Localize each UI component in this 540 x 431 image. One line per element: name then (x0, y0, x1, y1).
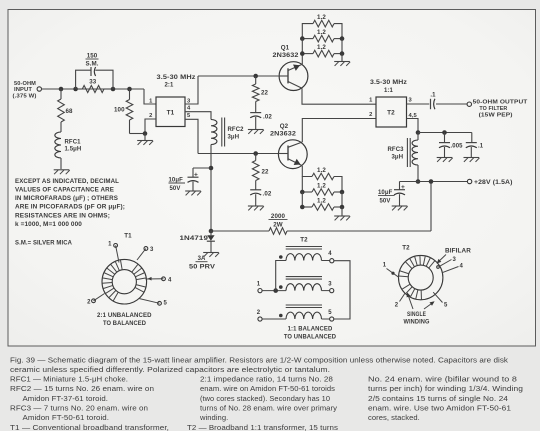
resistor 1.2 (Q2 a) (302, 167, 342, 192)
svg-text:50 PRV: 50 PRV (189, 265, 215, 271)
svg-text:3μH: 3μH (392, 155, 404, 161)
label 2:1 (165, 83, 175, 89)
wire RFC3 to +28V rail (417, 165, 419, 182)
svg-text:turns per inch) for winding 1/: turns per inch) for winding 1/3/4. Windi… (368, 384, 523, 393)
notes text (15, 178, 125, 228)
resistor 2000 2W (211, 213, 431, 234)
svg-text:T2: T2 (387, 110, 395, 117)
transformer T2 box (376, 97, 407, 127)
wire T1 pin5 to lower rail (185, 119, 198, 153)
transistor Q1 (279, 62, 308, 91)
capacitor .1 bypass (466, 133, 484, 158)
ground diode (203, 253, 219, 257)
svg-text:4: 4 (328, 251, 332, 257)
svg-text:1: 1 (383, 263, 387, 269)
T2 winding bottom (2-5) (279, 305, 322, 319)
svg-text:2: 2 (395, 303, 399, 309)
wire +28V rail (400, 181, 468, 183)
node Q2 e-rail left c (300, 205, 305, 210)
svg-text:.005: .005 (451, 144, 464, 150)
resistor 1.2 (Q2 c) (302, 192, 342, 210)
svg-text:33: 33 (89, 78, 97, 85)
T2 pict SINGLE WINDING (404, 292, 435, 325)
T2 terminal 4 (322, 251, 334, 263)
svg-text:+: + (401, 184, 405, 191)
svg-text:T1 — Conventional broadband tr: T1 — Conventional broadband transformer, (10, 423, 169, 431)
resistor 33 (76, 78, 113, 92)
svg-text:.1: .1 (430, 93, 436, 99)
choke RFC3 (388, 133, 419, 168)
node Q2 e-rail right b (340, 190, 345, 195)
T2 pict lead 3 (437, 257, 457, 268)
label 50-OHM OUTPUT (473, 100, 528, 119)
svg-text:TO FILTER: TO FILTER (479, 106, 508, 112)
wire T2 top-left link (276, 261, 286, 291)
svg-text:2:1 impedance ratio, 14 turns: 2:1 impedance ratio, 14 turns No. 28 (200, 374, 333, 383)
svg-text:100: 100 (114, 107, 125, 114)
node cap-right (111, 87, 116, 92)
capacitor 10uF 50V (right) (378, 182, 405, 206)
svg-text:1.2: 1.2 (317, 14, 326, 21)
node e-rail left c (300, 51, 305, 56)
transformer T1 toroid pictorial (102, 259, 147, 304)
wire T1 pin2 to ground (145, 119, 156, 134)
node Q2 e-rail right c (340, 205, 345, 210)
notes S.M. (15, 239, 72, 246)
svg-text:winding.: winding. (199, 413, 228, 422)
svg-text:T2: T2 (300, 237, 308, 244)
capacitor 150 S.M. bridge wire (76, 70, 113, 89)
T2 pict BIFILAR (437, 249, 472, 264)
node e-rail right b (340, 36, 345, 41)
svg-text:5: 5 (164, 301, 168, 307)
wire top base rail (198, 75, 278, 77)
+28V terminal (467, 179, 471, 183)
capacitor 150 S.M. (85, 53, 98, 77)
T2 pin 2 label (369, 112, 372, 118)
capacitor .005 (439, 133, 463, 158)
svg-text:RFC3: RFC3 (388, 147, 405, 153)
svg-text:.02: .02 (263, 191, 272, 198)
choke RFC2 (211, 118, 244, 147)
wire cap to output terminal (436, 103, 467, 105)
pin 3 label (187, 99, 191, 105)
wire lower base rail (198, 153, 278, 155)
schematic border frame (8, 10, 536, 347)
figure caption text (10, 355, 523, 431)
node 2000 branch (429, 179, 434, 184)
ground .02 (Q1) (248, 130, 264, 134)
choke RFC1 (55, 132, 82, 169)
svg-text:2: 2 (257, 310, 261, 316)
svg-text:T2: T2 (402, 244, 410, 251)
node diode junction (209, 229, 214, 234)
capacitor .1 output (430, 93, 436, 110)
svg-text:RFC2: RFC2 (228, 127, 245, 133)
wire T2 pin3 out (407, 103, 430, 105)
pin 1 label (149, 99, 153, 105)
T1 caption (97, 312, 152, 327)
svg-text:+: + (194, 172, 198, 179)
svg-text:1: 1 (108, 241, 112, 247)
T2 pictorial label (402, 244, 410, 251)
capacitor .02 (Q1) (250, 102, 272, 130)
svg-text:3.5-30 MHz: 3.5-30 MHz (157, 74, 196, 81)
label 1:1 (384, 88, 394, 94)
wire T1 pin4 to RFC2 (185, 112, 211, 120)
pin 2 label (149, 113, 152, 119)
svg-text:SINGLE: SINGLE (407, 312, 426, 318)
svg-text:Q2: Q2 (280, 123, 289, 130)
svg-text:+28V (1.5A): +28V (1.5A) (474, 180, 513, 186)
svg-text:Amidon FT-37-61 toroid.: Amidon FT-37-61 toroid. (23, 394, 109, 403)
capacitor .02 (Q2) (250, 181, 272, 206)
svg-text:.02: .02 (263, 113, 272, 120)
svg-text:3: 3 (328, 282, 332, 288)
T1 lead 5 (139, 299, 168, 307)
transformer T2 toroid pictorial (399, 255, 443, 299)
svg-text:2: 2 (149, 113, 152, 119)
T2 pict lead 5 (433, 292, 448, 308)
resistor 22 (Q2 base) (252, 154, 269, 181)
input label 50-OHM INPUT (13, 81, 37, 99)
svg-text:VALUES OF CAPACITANCE ARE: VALUES OF CAPACITANCE ARE (15, 187, 114, 194)
diode 1N4719 (180, 231, 215, 252)
svg-text:RFC1 — Miniature 1.5-μH choke.: RFC1 — Miniature 1.5-μH choke. (10, 374, 128, 383)
svg-text:Amidon FT-50-61 toroid.: Amidon FT-50-61 toroid. (23, 413, 110, 422)
output terminal (467, 102, 471, 106)
svg-text:Fig. 39 — Schematic diagram of: Fig. 39 — Schematic diagram of the 15-wa… (10, 355, 508, 364)
T2 pin 1 label (369, 98, 373, 104)
pin 5 label (187, 113, 191, 119)
node RFC3 rail (416, 179, 421, 184)
wire input to T1 (42, 88, 145, 90)
T1 lead 1 (108, 241, 119, 262)
svg-text:2N3632: 2N3632 (273, 52, 300, 59)
svg-text:2: 2 (369, 112, 372, 118)
ground RFC1 (54, 170, 70, 174)
node T2 winding link (273, 288, 278, 293)
svg-text:50-OHM OUTPUT: 50-OHM OUTPUT (473, 100, 528, 106)
wire T2 pin4,5 to node (407, 119, 419, 133)
svg-text:(.375 W): (.375 W) (13, 93, 37, 99)
svg-text:T1: T1 (124, 233, 132, 240)
svg-text:ceramic unless specified diffe: ceramic unless specified differently. Po… (10, 365, 330, 374)
node T2 cold end (416, 130, 421, 135)
svg-text:3μH: 3μH (228, 135, 240, 141)
svg-text:1N4719: 1N4719 (180, 236, 209, 242)
label Q1 (273, 44, 300, 59)
T2 winding caption (284, 326, 337, 341)
svg-text:1.2: 1.2 (317, 167, 326, 174)
svg-text:68: 68 (66, 108, 74, 115)
svg-text:2:1 UNBALANCED: 2:1 UNBALANCED (97, 312, 152, 319)
node 100-branch (127, 87, 132, 92)
svg-text:.1: .1 (478, 144, 484, 150)
svg-text:1.5μH: 1.5μH (65, 147, 82, 153)
svg-text:1.2: 1.2 (317, 29, 326, 36)
wire Q1 emitter (301, 54, 303, 65)
resistor 68 (58, 89, 73, 132)
node .005 branch (442, 130, 447, 135)
label Q2 (270, 123, 297, 137)
svg-text:50V: 50V (170, 186, 181, 192)
node Q2 bias branch (253, 151, 258, 156)
svg-text:RFC1: RFC1 (65, 140, 82, 146)
wire main to T1 pin1 (144, 89, 156, 104)
svg-text:EXCEPT AS INDICATED, DECIMAL: EXCEPT AS INDICATED, DECIMAL (15, 178, 119, 185)
svg-text:IN MICROFARADS (μF) ; OTHERS: IN MICROFARADS (μF) ; OTHERS (15, 195, 118, 202)
svg-text:2:1: 2:1 (165, 83, 175, 89)
wire Q2 collector (302, 119, 376, 143)
node pin2-100 junction (143, 131, 148, 136)
svg-text:50V: 50V (380, 198, 391, 204)
svg-text:2W: 2W (273, 222, 283, 229)
wire T1 pin3 to top rail (185, 76, 198, 104)
svg-text:No. 24 enam. wire (bifilar wou: No. 24 enam. wire (bifilar wound to 8 (368, 374, 517, 383)
svg-text:2: 2 (87, 299, 91, 305)
svg-text:S.M.: S.M. (85, 60, 98, 67)
ground .005 (437, 158, 453, 162)
T2 terminal 3 (322, 282, 334, 293)
ground .1 bypass (464, 158, 480, 162)
T2 pin 4,5 label (409, 113, 418, 119)
capacitor 10uF 50V (left) (169, 168, 212, 192)
wire cold rail (418, 132, 472, 134)
svg-text:RFC3 — 7 turns No. 20 enam. wi: RFC3 — 7 turns No. 20 enam. wire on (10, 403, 148, 412)
svg-text:4: 4 (168, 277, 172, 283)
svg-text:2N3632: 2N3632 (270, 130, 297, 137)
pin 4 label (187, 105, 191, 111)
svg-text:T2 — Broadband 1:1 transformer: T2 — Broadband 1:1 transformer, 15 turns (187, 423, 338, 431)
label 3A 50 PRV (189, 256, 215, 271)
node Q1 bias branch (253, 74, 258, 79)
T2 terminal 1 (257, 282, 286, 293)
svg-text:INPUT: INPUT (14, 87, 32, 93)
svg-text:S.M.= SILVER MICA: S.M.= SILVER MICA (15, 239, 72, 246)
T2 winding top (4) (279, 247, 322, 261)
svg-text:1: 1 (257, 282, 261, 288)
resistor 1.2 (Q1 a) (302, 14, 342, 39)
ground .02 (Q2) (248, 206, 264, 210)
svg-text:TO UNBALANCED: TO UNBALANCED (284, 334, 337, 341)
resistor 1.2 (Q1 b) (302, 29, 342, 42)
wire Q2 emitter (301, 166, 303, 177)
ground 10uF (left) (185, 191, 201, 195)
svg-text:10μF: 10μF (378, 190, 393, 196)
svg-text:4: 4 (460, 264, 464, 270)
T1 pictorial label (124, 233, 132, 240)
svg-text:1.2: 1.2 (317, 44, 326, 51)
svg-text:k =1000, M=1 000 000: k =1000, M=1 000 000 (15, 221, 83, 228)
svg-text:Q1: Q1 (281, 44, 290, 51)
ground T1 pin2 (137, 134, 153, 145)
T2 pin 3 label (409, 98, 413, 104)
svg-text:RESISTANCES ARE IN OHMS;: RESISTANCES ARE IN OHMS; (15, 212, 110, 219)
T1 lead 2 (87, 294, 104, 306)
resistor 22 (Q1 base) (252, 76, 268, 102)
svg-text:2000: 2000 (271, 213, 286, 220)
svg-text:5: 5 (444, 303, 448, 309)
transistor Q2 (278, 140, 307, 169)
T2 pict lead 2 (395, 294, 405, 309)
wire T2 outer link 4-5 (334, 261, 350, 319)
T2 pict lead 4 (442, 264, 464, 273)
label 3.5-30 MHz (T2) (370, 79, 407, 86)
svg-text:3: 3 (150, 247, 154, 253)
svg-text:1:1 BALANCED: 1:1 BALANCED (288, 326, 333, 333)
svg-text:2/5 contains 15 turns of singl: 2/5 contains 15 turns of single No. 24 (368, 394, 508, 403)
svg-text:cores, stacked.: cores, stacked. (368, 413, 420, 422)
svg-text:1:1: 1:1 (384, 88, 394, 94)
svg-text:ARE IN PICOFARADS (pF OR μμF);: ARE IN PICOFARADS (pF OR μμF); (15, 203, 125, 210)
svg-text:T1: T1 (167, 110, 175, 117)
T2 label (winding diagram) (300, 237, 308, 244)
wire Q1 collector (302, 88, 376, 104)
wire 2000 to +28V rail (430, 182, 432, 232)
label 3.5-30 MHz (T1) (157, 74, 196, 81)
resistor 1.2 (Q2 b) (302, 183, 342, 196)
node e-rail right c (340, 51, 345, 56)
T2 terminal 2 (257, 310, 286, 321)
svg-text:1.2: 1.2 (317, 183, 326, 190)
label +28V (474, 180, 513, 186)
node cap-left (73, 87, 78, 92)
svg-text:22: 22 (262, 169, 270, 176)
resistor 100 (114, 89, 145, 134)
T2 terminal 5 (322, 310, 334, 321)
node RFC2/10uF junction (209, 166, 214, 171)
wire RFC2 to bias node (210, 145, 212, 232)
node Q2 e-rail left b (300, 190, 305, 195)
node e-rail left b (300, 36, 305, 41)
T2 winding middle (1-3) (279, 277, 322, 291)
svg-text:3: 3 (453, 257, 457, 263)
svg-text:turns of No. 28 enam. wire ove: turns of No. 28 enam. wire over primary (200, 403, 337, 412)
input terminal (37, 87, 41, 91)
svg-text:22: 22 (261, 90, 269, 97)
T1 lead 3 (137, 247, 154, 260)
transformer T1 box (156, 97, 185, 127)
svg-text:WINDING: WINDING (404, 320, 430, 326)
svg-text:enam. wire on Amidon FT-50-61: enam. wire on Amidon FT-50-61 toroids (200, 384, 335, 393)
svg-text:5: 5 (328, 310, 332, 316)
T1 lead 4 (146, 277, 173, 283)
svg-text:3.5-30 MHz: 3.5-30 MHz (370, 79, 407, 86)
svg-text:1.2: 1.2 (317, 198, 326, 205)
svg-text:(15W PEP): (15W PEP) (479, 112, 513, 118)
node 68-branch (59, 87, 64, 92)
ground Q1 emitter (334, 54, 350, 66)
ground 10uF (right) (392, 206, 408, 210)
resistor 1.2 (Q1 c) (302, 39, 342, 57)
svg-text:BIFILAR: BIFILAR (445, 249, 472, 255)
svg-text:(two cores stacked). Secondary: (two cores stacked). Secondary has 10 (200, 394, 330, 403)
svg-text:3A: 3A (198, 256, 206, 262)
svg-text:enam. wire. Use two Amidon FT-: enam. wire. Use two Amidon FT-50-61 (368, 403, 511, 412)
svg-text:TO BALANCED: TO BALANCED (103, 320, 146, 327)
svg-text:RFC2 — 15 turns No. 26 enam. w: RFC2 — 15 turns No. 26 enam. wire on (10, 384, 154, 393)
ground Q2 emitter (334, 207, 350, 220)
svg-text:150: 150 (87, 53, 98, 60)
T2 pict lead 1 (383, 263, 399, 278)
